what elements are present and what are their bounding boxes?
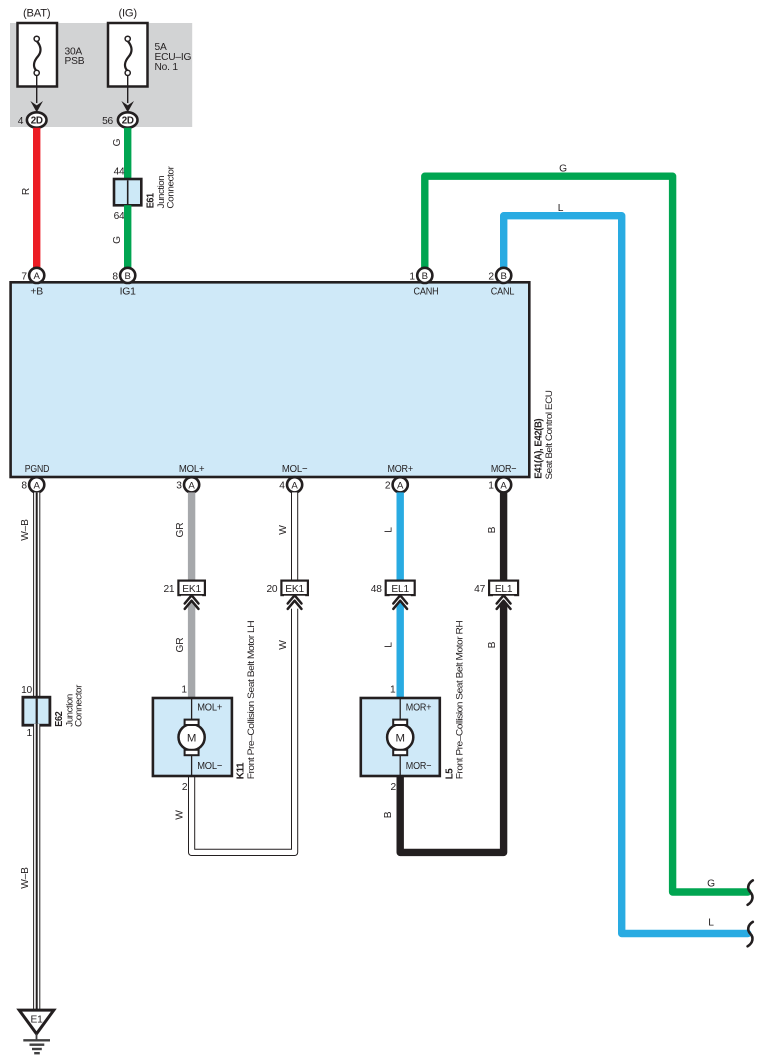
svg-text:1: 1 — [409, 271, 415, 282]
arrow from fuse F2 — [121, 76, 134, 113]
chevrons 47 EL1 — [493, 595, 514, 609]
connector 48 EL1 — [371, 581, 415, 596]
svg-text:4: 4 — [18, 116, 24, 127]
pin 2 B (CANL) — [488, 268, 511, 283]
svg-text:MOR+: MOR+ — [406, 702, 432, 713]
svg-text:G: G — [112, 138, 123, 146]
svg-text:PSB: PSB — [65, 56, 85, 67]
pin 7 A (+B) — [21, 268, 44, 283]
svg-text:G: G — [112, 236, 123, 244]
svg-text:1: 1 — [488, 481, 494, 492]
svg-text:A: A — [500, 480, 507, 491]
svg-text:MOL−: MOL− — [197, 761, 222, 772]
svg-text:A: A — [33, 271, 40, 282]
svg-text:B: B — [500, 271, 506, 282]
svg-text:4: 4 — [279, 481, 285, 492]
pin 1 A (MOR-) — [488, 477, 511, 492]
svg-text:2: 2 — [182, 782, 188, 793]
chevrons 21 EK1 — [181, 595, 202, 609]
svg-text:B: B — [383, 811, 394, 818]
junction connector E62 — [21, 685, 84, 740]
wire W (MOL- loop to motor K11 bottom) — [175, 492, 295, 852]
svg-text:1: 1 — [181, 685, 187, 696]
pin 8 B (IG1) — [112, 268, 135, 283]
svg-text:8: 8 — [21, 481, 27, 492]
svg-text:1: 1 — [390, 685, 396, 696]
ground E1 — [19, 1010, 54, 1053]
wire B (MOR- loop to motor L5 bottom) — [383, 492, 503, 852]
wire W-B (PGND to E62) — [20, 492, 37, 698]
svg-text:A: A — [397, 480, 404, 491]
pin 4 A (MOL-) — [279, 477, 302, 492]
chevrons 48 EL1 — [390, 595, 411, 609]
svg-text:8: 8 — [112, 271, 118, 282]
svg-text:CANL: CANL — [491, 286, 515, 297]
svg-text:W: W — [278, 640, 289, 650]
svg-text:20: 20 — [266, 584, 277, 595]
motor L5 Front Pre-Collision Seat Belt Motor RH — [361, 621, 465, 793]
svg-text:64: 64 — [114, 211, 125, 222]
break symbol (G wire continues) — [748, 880, 753, 904]
svg-text:CANH: CANH — [414, 286, 439, 297]
svg-text:56: 56 — [102, 116, 113, 127]
junction connector E61 — [114, 166, 176, 222]
motor symbol L5 — [387, 724, 413, 750]
svg-text:W–B: W–B — [20, 519, 31, 541]
svg-text:PGND: PGND — [25, 464, 50, 475]
svg-text:MOR−: MOR− — [491, 464, 517, 475]
svg-text:48: 48 — [371, 584, 382, 595]
wire R (battery to +B) — [21, 128, 37, 268]
svg-text:GR: GR — [175, 523, 186, 538]
svg-text:44: 44 — [114, 167, 125, 178]
pin 2 A (MOR+) — [385, 477, 408, 492]
svg-text:B: B — [422, 271, 428, 282]
svg-text:R: R — [21, 188, 32, 195]
motor symbol K11 — [179, 724, 205, 750]
svg-text:M: M — [395, 732, 405, 744]
svg-text:A: A — [188, 480, 195, 491]
svg-text:Seat Belt Control ECU: Seat Belt Control ECU — [543, 390, 554, 480]
svg-text:MOL−: MOL− — [282, 464, 308, 475]
svg-text:2: 2 — [488, 271, 494, 282]
svg-text:3: 3 — [176, 481, 182, 492]
svg-text:M: M — [187, 732, 197, 744]
svg-text:EK1: EK1 — [182, 584, 201, 595]
svg-text:IG1: IG1 — [120, 286, 137, 297]
svg-text:B: B — [487, 641, 498, 648]
svg-text:2: 2 — [391, 782, 397, 793]
fuse F2 (IG) 5A ECU-IG No.1 — [108, 8, 192, 87]
fuse F1 (BAT) 30A PSB — [18, 8, 85, 87]
svg-text:2D: 2D — [31, 116, 43, 127]
fuse panel background — [10, 23, 192, 127]
svg-text:GR: GR — [175, 638, 186, 653]
svg-text:2D: 2D — [122, 116, 134, 127]
wire GR (MOL+ to motor K11) — [175, 492, 192, 698]
wire L CANL (to other CAN node) — [504, 203, 748, 934]
svg-text:L: L — [708, 917, 714, 928]
svg-text:EL1: EL1 — [495, 584, 513, 595]
svg-text:(IG): (IG) — [118, 8, 137, 20]
motor K11 Front Pre-Collision Seat Belt Motor LH — [153, 621, 256, 793]
svg-text:EL1: EL1 — [391, 584, 409, 595]
svg-text:Connector: Connector — [73, 685, 84, 727]
break symbol (L wire continues) — [748, 922, 753, 946]
svg-text:W: W — [175, 810, 186, 820]
svg-text:MOL+: MOL+ — [197, 702, 222, 713]
pin 8 A (PGND) — [21, 477, 44, 492]
svg-text:MOL+: MOL+ — [179, 464, 205, 475]
svg-text:B: B — [487, 526, 498, 533]
svg-text:L: L — [558, 203, 564, 214]
svg-text:MOR−: MOR− — [406, 761, 432, 772]
svg-text:B: B — [124, 271, 130, 282]
svg-text:+B: +B — [30, 286, 43, 297]
svg-text:L: L — [384, 527, 395, 533]
svg-text:Connector: Connector — [165, 166, 176, 208]
svg-text:No. 1: No. 1 — [155, 62, 179, 73]
svg-text:MOR+: MOR+ — [387, 464, 413, 475]
svg-text:A: A — [291, 480, 298, 491]
svg-text:W: W — [278, 525, 289, 535]
svg-text:1: 1 — [27, 728, 33, 739]
svg-text:Front Pre–Collision Seat Belt: Front Pre–Collision Seat Belt Motor RH — [454, 621, 465, 780]
svg-text:21: 21 — [163, 584, 174, 595]
svg-text:2: 2 — [385, 481, 391, 492]
wire G CANH (to other CAN node) — [425, 163, 748, 892]
arrow from fuse F1 — [30, 76, 43, 113]
wire W-B (E62 to ground E1) — [20, 724, 37, 1010]
svg-text:A: A — [33, 480, 40, 491]
chevrons 20 EK1 — [284, 595, 305, 609]
svg-text:EK1: EK1 — [285, 584, 304, 595]
svg-text:G: G — [707, 879, 715, 890]
svg-text:47: 47 — [474, 584, 485, 595]
wire G lower (E61 to IG1) — [112, 205, 128, 268]
connector 20 EK1 — [266, 581, 307, 596]
svg-text:10: 10 — [21, 685, 32, 696]
svg-text:G: G — [559, 163, 567, 174]
connector 56 2D — [102, 112, 137, 127]
pin 3 A (MOL+) — [176, 477, 199, 492]
pin 1 B (CANH) — [409, 268, 432, 283]
svg-text:W–B: W–B — [20, 867, 31, 889]
ECU box E41(A), E42(B) Seat Belt Control ECU — [11, 282, 554, 479]
connector 47 EL1 — [474, 581, 518, 596]
svg-text:7: 7 — [21, 271, 27, 282]
svg-text:(BAT): (BAT) — [23, 8, 51, 20]
svg-text:E1: E1 — [30, 1014, 43, 1025]
svg-text:L: L — [384, 642, 395, 648]
wire G upper (IG fuse to E61) — [112, 128, 128, 179]
connector 4 2D — [18, 112, 47, 127]
connector 21 EK1 — [163, 581, 204, 596]
wire L (MOR+ to motor L5) — [384, 492, 401, 698]
svg-text:Front Pre–Collision Seat Belt: Front Pre–Collision Seat Belt Motor LH — [245, 621, 256, 780]
